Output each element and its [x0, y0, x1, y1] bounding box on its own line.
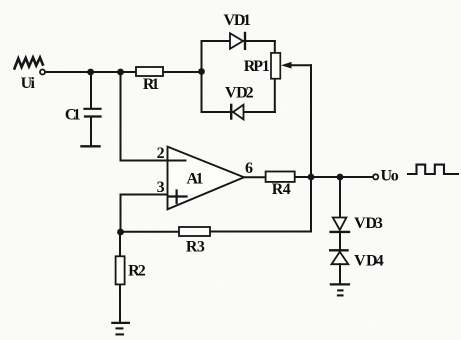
svg-text:V D4: V D4: [354, 253, 384, 270]
svg-text:R 3: R 3: [186, 238, 205, 255]
svg-text:2: 2: [157, 145, 165, 162]
svg-text:6: 6: [245, 160, 253, 177]
svg-text:V D2: V D2: [225, 84, 254, 101]
svg-text:Ui: Ui: [21, 75, 36, 92]
svg-text:RP 1: RP 1: [244, 58, 270, 75]
svg-text:R 4: R 4: [272, 181, 291, 198]
svg-text:3: 3: [157, 179, 165, 196]
svg-text:R 1: R 1: [143, 76, 160, 93]
svg-text:C 1: C 1: [65, 106, 81, 123]
svg-text:V D3: V D3: [354, 215, 383, 232]
svg-text:A 1: A 1: [187, 171, 204, 188]
svg-text:R 2: R 2: [128, 263, 146, 280]
svg-text:V D1: V D1: [224, 12, 252, 29]
svg-text:Uo: Uo: [381, 168, 399, 185]
